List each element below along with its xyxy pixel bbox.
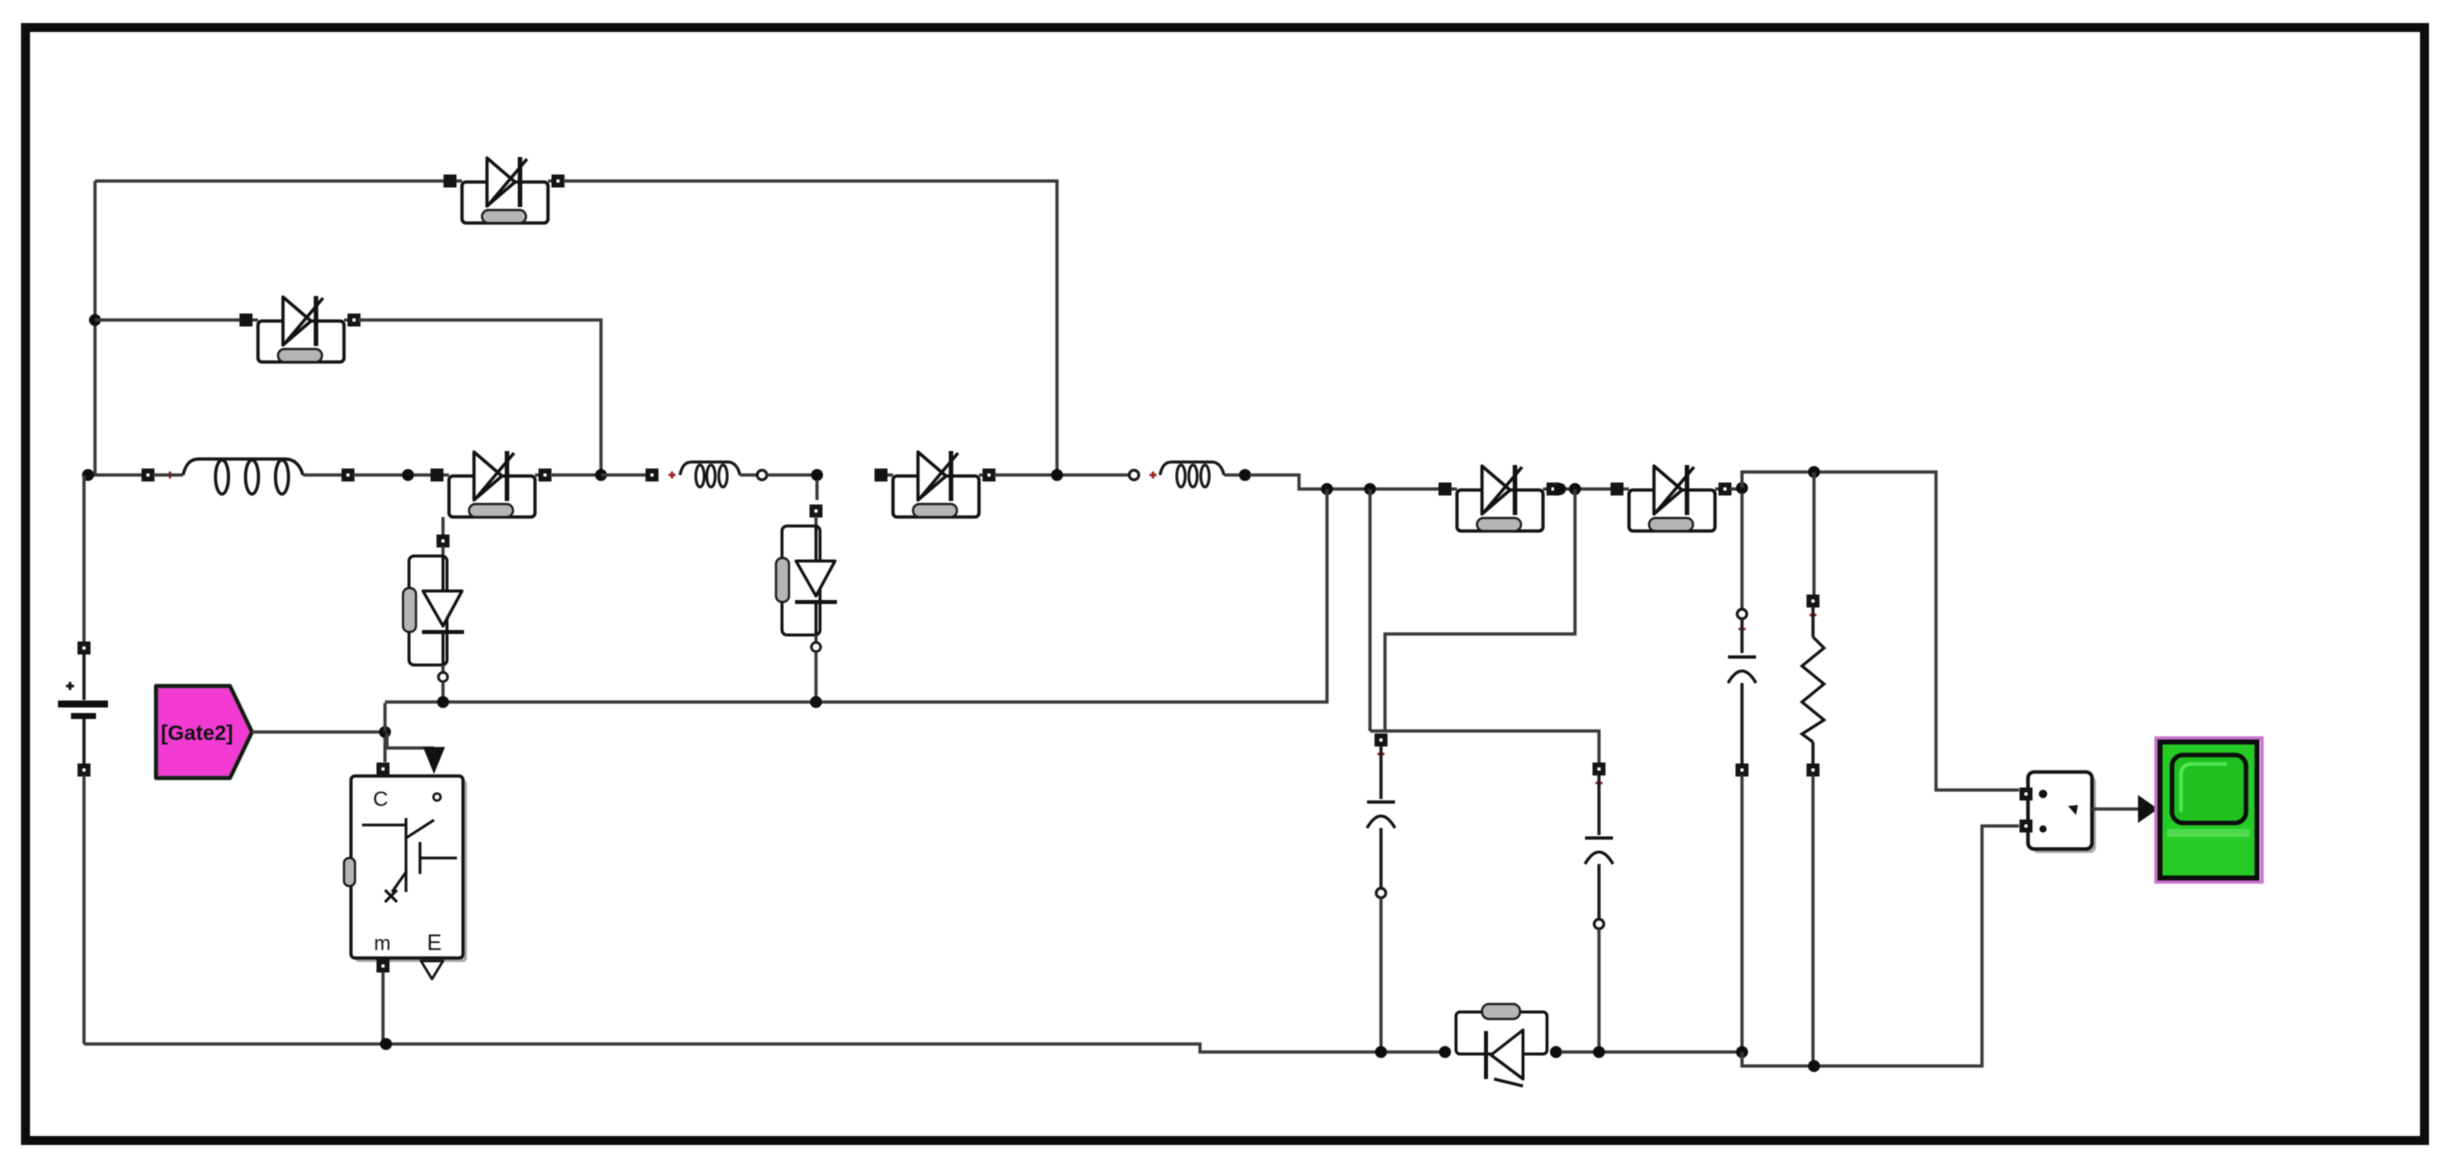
node bus / capacitor C1 feed [1364, 483, 1376, 495]
wire gate node to gate port [383, 737, 386, 762]
wire output node to measurement input 1 [1742, 472, 2019, 790]
wire battery lead lower [82, 719, 85, 765]
wire T2 cathode to collector rail [814, 652, 817, 702]
diode D2 (with RC snubber) [240, 296, 361, 362]
battery + sign [66, 682, 74, 690]
wire T1 cathode to collector rail [441, 682, 444, 702]
node bottom rail / IGBT emitter [380, 1038, 392, 1050]
port capacitor C3 bottom [1736, 764, 1749, 777]
port battery + [78, 642, 91, 655]
wire bottom rail to measurement input 2 [1742, 826, 2019, 1066]
wire bottom rail left [84, 1044, 1440, 1052]
wire C3 lead lower [1740, 683, 1743, 765]
node load resistor tap [1808, 466, 1820, 478]
wire R1 lead [1811, 606, 1814, 637]
node left riser / D2 tap [89, 314, 101, 326]
port IGBT m [377, 960, 390, 973]
wire bus step down to right section [1250, 475, 1440, 489]
svg-text:[Gate2]: [Gate2] [161, 722, 233, 745]
port thyristor T3 anode side [1550, 1046, 1562, 1058]
wire bottom rail mid [1561, 1050, 1742, 1053]
node bus waypoint [402, 469, 414, 481]
polarity + of capacitor C1 [1378, 751, 1385, 758]
wire IGBT to bottom rail [381, 972, 384, 1044]
node gate wiring [379, 726, 391, 738]
wire bus from battery node to L1 [84, 473, 143, 476]
port capacitor C1 top [1375, 734, 1388, 747]
wire gate node to collector arrow [387, 733, 434, 748]
polarity + of resistor R1 [1810, 612, 1817, 619]
inductor L2 [680, 462, 740, 487]
wire C2 to bottom rail [1597, 929, 1600, 1052]
capacitor C2 [1585, 838, 1613, 864]
node bus / IGBT collector feed [1321, 483, 1333, 495]
wire to load resistor R1 [1812, 472, 1815, 596]
wire D1 cathode to bus drop [563, 181, 1057, 470]
port L3 left terminal [1129, 470, 1139, 480]
node bus / battery column [82, 469, 94, 481]
scope block [2160, 742, 2257, 878]
node T1 / collector rail [437, 696, 449, 708]
capacitor C1 [1367, 802, 1395, 828]
capacitor C3 [1728, 657, 1756, 683]
node bus / D2 branch junction [595, 469, 607, 481]
arrow into IGBT collector [423, 747, 445, 774]
diode D5 (with RC snubber) [1439, 465, 1560, 531]
IGBT internal port mark [433, 793, 440, 800]
diode D4 (with RC snubber) [875, 451, 996, 517]
wire C1/C2 top link [1370, 731, 1599, 764]
port thyristor T3 cathode side [1439, 1046, 1451, 1058]
wire C3 to bottom rail [1740, 775, 1743, 1052]
node bus / thyristor T2 branch [811, 469, 823, 481]
port capacitor C2 bottom [1594, 919, 1604, 929]
port resistor R1 top [1807, 595, 1820, 608]
diode D3 (with RC snubber) [431, 451, 552, 517]
polarity + of capacitor C2 [1596, 780, 1603, 787]
wire battery lead [82, 653, 85, 700]
wire R1 lead lower [1811, 742, 1814, 765]
diode D1 (with RC snubber) [444, 157, 565, 223]
node between D5 and D6 [1554, 483, 1566, 495]
inductor L1 [183, 459, 303, 494]
port resistor R1 bottom [1807, 764, 1820, 777]
polarity + of inductor L3 [1150, 472, 1157, 479]
svg-text:C: C [373, 788, 388, 811]
wire bus down to IGBT collector rail [385, 489, 1327, 702]
port L2 left terminal [646, 469, 659, 482]
node D5-D6 / snubber tap [1569, 483, 1581, 495]
wire C1 lead [1379, 745, 1382, 799]
thyristor T1 (vertical, with snubber) [403, 535, 464, 682]
node bottom rail / C2 [1593, 1046, 1605, 1058]
wire D4 to L3 [994, 473, 1129, 476]
voltage measurement block shadow [2032, 776, 2096, 853]
wire C2 lead lower [1597, 864, 1600, 919]
IGBT Q1 block [351, 776, 463, 958]
wire L3 lead right [1224, 473, 1240, 476]
port IGBT gate g [377, 763, 390, 776]
IGBT Q1 block shadow [355, 780, 467, 962]
wire C1 lead lower [1379, 828, 1382, 888]
node output bus [1736, 482, 1748, 494]
IGBT transistor symbol [362, 818, 457, 902]
wire D3 block to thyristor T1 [441, 517, 444, 535]
thyristor T3 (horizontal, with snubber) [1456, 1004, 1547, 1086]
thyristor T2 (vertical, with snubber) [776, 505, 837, 652]
wire D5-D6 node to C1 top [1385, 489, 1575, 731]
wire stub to thyristor T2 [815, 480, 818, 500]
port L2 right terminal [757, 470, 767, 480]
port IGBT emitter E [421, 961, 443, 979]
wire bus down to C1 [1368, 489, 1371, 731]
svg-text:E: E [427, 930, 442, 955]
wire D6 cathode to output node [1730, 487, 1742, 490]
port measurement - input [2020, 820, 2033, 833]
wire left riser [93, 181, 96, 475]
wire C2 lead [1597, 774, 1600, 835]
wire L2 to node [767, 473, 812, 476]
arrow into scope [2138, 795, 2158, 823]
resistor R1 (load) [1802, 637, 1824, 742]
port L3 right terminal [1239, 469, 1251, 481]
port capacitor C2 top [1593, 763, 1606, 776]
port capacitor C3 top [1737, 609, 1747, 619]
wire D3 to node [550, 473, 596, 476]
wire L1 to diode D3 [353, 473, 432, 476]
wire top rail to diode D1 anode [95, 179, 445, 182]
scope selection halo [2156, 738, 2262, 882]
From tag [Gate2] [156, 686, 252, 778]
port measurement + input [2020, 788, 2033, 801]
port battery - [78, 764, 91, 777]
measurement marks [2039, 790, 2078, 833]
wire output node down to capacitor C3 [1740, 493, 1743, 609]
node T2 / collector rail [810, 696, 822, 708]
inductor L3 [1160, 462, 1224, 487]
svg-text:m: m [374, 933, 391, 955]
node bottom rail / C3 [1736, 1046, 1748, 1058]
wire L1 lead right [303, 473, 343, 476]
wire to diode D2 anode [95, 318, 241, 321]
wire C3 lead [1740, 619, 1743, 653]
port L1 left terminal [142, 469, 155, 482]
wire L1 lead [153, 473, 183, 476]
wire C1 to bottom rail [1379, 898, 1382, 1052]
wire node to L2 [601, 473, 647, 476]
wire D2 cathode to bus drop [358, 320, 601, 470]
wire R1 to bottom rail [1811, 775, 1814, 1066]
voltage measurement block U1 [2028, 772, 2092, 849]
node bus / top rail drop [1051, 469, 1063, 481]
wire measurement output to scope [2092, 807, 2138, 810]
diode D6 (with RC snubber) [1611, 465, 1732, 531]
battery B1 (DC voltage source) [58, 704, 108, 716]
IGBT left snubber mark [344, 858, 355, 886]
wire battery to bottom rail [82, 775, 85, 1044]
polarity + of inductor L1 [167, 472, 174, 479]
polarity + of inductor L2 [669, 472, 676, 479]
wire gate node up to collector rail [383, 703, 386, 732]
port capacitor C1 bottom [1376, 888, 1386, 898]
node bottom rail / C1 [1375, 1046, 1387, 1058]
wire Gate2 to IGBT gate node [252, 730, 383, 733]
node bottom rail / R1 [1808, 1060, 1820, 1072]
wire D5 to D6 [1558, 487, 1612, 490]
polarity + of capacitor C3 [1739, 626, 1746, 633]
wire bus down to battery [82, 475, 85, 643]
wire L2 lead right [740, 473, 757, 476]
port L1 right terminal [342, 469, 355, 482]
